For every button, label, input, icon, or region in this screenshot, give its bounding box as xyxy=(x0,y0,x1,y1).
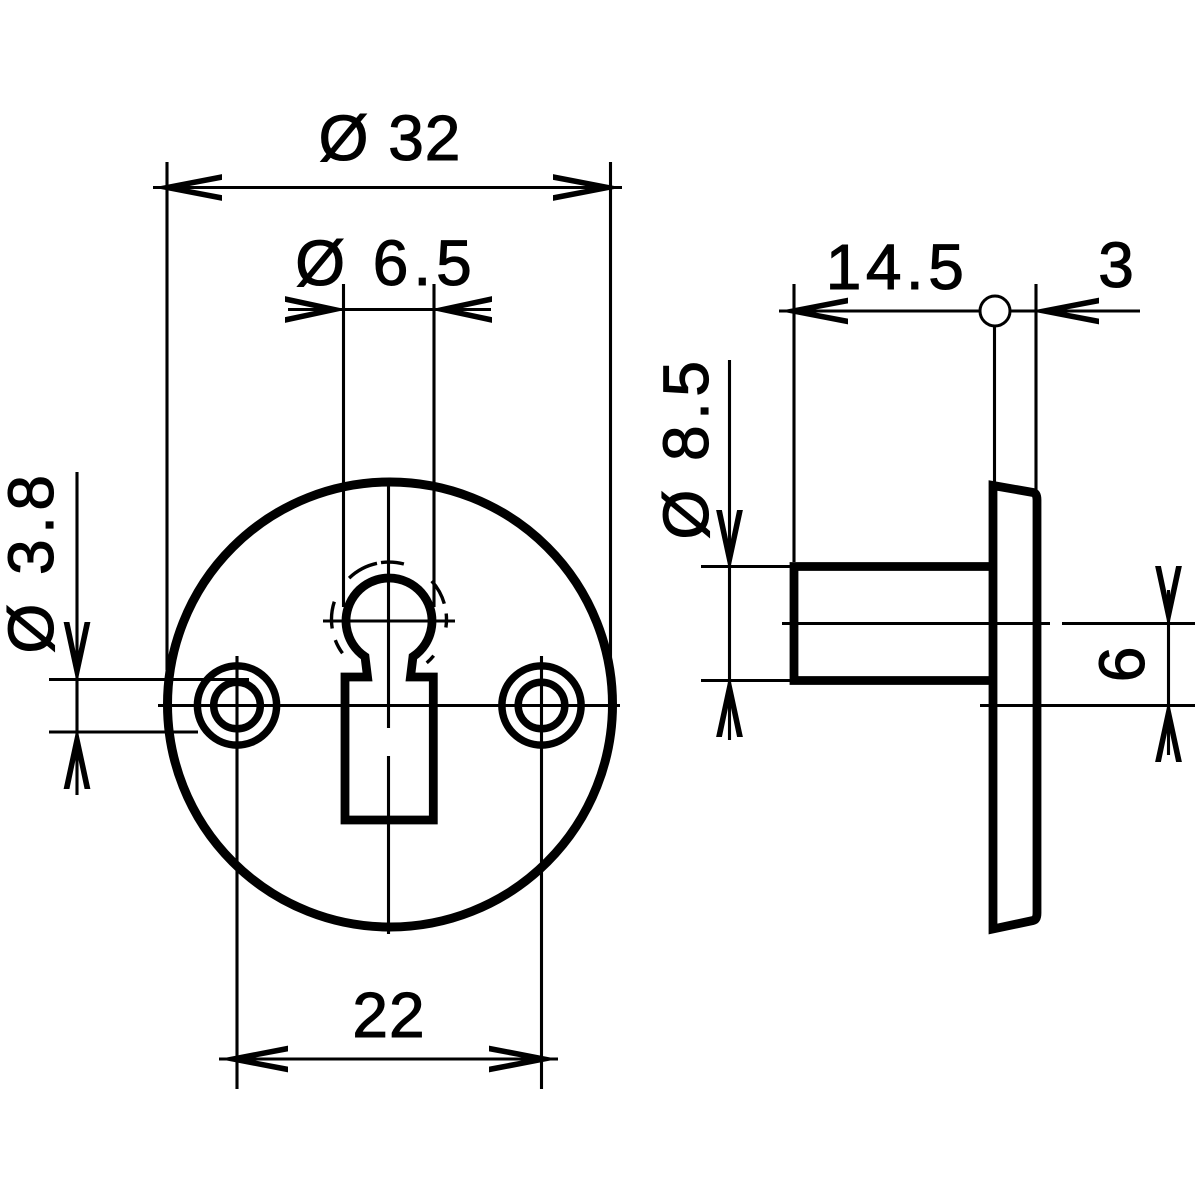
dimension Ø32: left arrowhead xyxy=(153,174,222,201)
svg-text:Ø 3.8: Ø 3.8 xyxy=(0,469,67,653)
dimension Ø3.8: dimension line xyxy=(75,472,78,795)
dimension 6: bottom arrowhead xyxy=(1155,700,1182,762)
dimension Ø8.5: dimension line xyxy=(728,360,731,740)
svg-text:3: 3 xyxy=(1098,229,1134,301)
dimension 22: dimension line xyxy=(219,1057,558,1060)
dimension Ø32: dimension line xyxy=(153,186,622,189)
dimension Ø32: extension line left xyxy=(165,162,168,670)
dimension 3: extension line left xyxy=(993,327,996,482)
side view: plate mid extension line xyxy=(980,704,1195,707)
svg-text:Ø 6.5: Ø 6.5 xyxy=(295,227,477,299)
dimension Ø6.5: left arrowhead xyxy=(285,296,347,323)
dimension 6: dimension line xyxy=(1167,590,1170,755)
dimension Ø3.8: top extension line xyxy=(49,678,249,681)
keyhole vertical centerline xyxy=(387,478,390,934)
svg-text:6: 6 xyxy=(1086,647,1158,683)
dimension Ø6.5: extension line left xyxy=(342,284,345,607)
dimension Ø3.8: top arrowhead xyxy=(64,622,91,684)
left screw hole inner circle Ø3.8 xyxy=(214,682,261,729)
dimension 14.5: extension line left xyxy=(792,284,795,562)
phantom circle Ø8.5 boss (dashed) around keyhole xyxy=(331,562,446,663)
left screw hole vertical centerline xyxy=(235,656,238,1089)
svg-text:14.5: 14.5 xyxy=(826,231,969,303)
dimension Ø6.5: right arrowhead xyxy=(430,296,492,323)
plate outer circle Ø32 (front view) xyxy=(168,482,613,927)
dimension Ø32: extension line right xyxy=(609,162,612,658)
svg-text:22: 22 xyxy=(352,979,425,1051)
dimension 3: extension line right xyxy=(1034,284,1037,490)
right screw hole vertical centerline xyxy=(540,656,543,1089)
keyhole slot outline xyxy=(345,578,433,820)
right screw hole inner circle xyxy=(518,682,565,729)
dimension 6: top arrowhead xyxy=(1155,566,1182,628)
dimension 14.5/3: circle terminator xyxy=(980,296,1010,326)
right screw hole outer circle xyxy=(502,666,581,745)
dimension Ø8.5: top arrowhead xyxy=(716,510,743,572)
dimension Ø8.5: bottom extension line xyxy=(701,679,790,682)
dimension 22: right arrowhead xyxy=(489,1046,558,1073)
dimension Ø6.5: dimension line xyxy=(288,308,491,311)
dimension 22: left arrowhead xyxy=(219,1046,288,1073)
left screw hole outer circle xyxy=(197,666,276,745)
side view: boss horizontal centerline xyxy=(782,622,1195,625)
dimension 14.5/3: dimension line xyxy=(779,309,1140,312)
keyhole horizontal centerline xyxy=(323,619,455,622)
svg-text:Ø 32: Ø 32 xyxy=(319,102,462,174)
dimension Ø8.5: top extension line xyxy=(701,565,790,568)
dimension Ø32: right arrowhead xyxy=(553,174,622,201)
dimension 3: arrowhead xyxy=(1030,298,1099,325)
dimension Ø3.8: bottom extension line xyxy=(49,730,198,733)
dimension Ø8.5: bottom arrowhead xyxy=(716,675,743,737)
dimension 14.5: left arrowhead xyxy=(779,298,848,325)
side view: plate outline xyxy=(993,486,1037,930)
svg-text:Ø 8.5: Ø 8.5 xyxy=(650,355,722,539)
dimension Ø6.5: extension line right xyxy=(432,284,435,607)
side view: boss cylinder outline xyxy=(794,567,993,681)
plate horizontal centerline (front view) xyxy=(158,704,620,707)
dimension Ø3.8: bottom arrowhead xyxy=(64,727,91,789)
